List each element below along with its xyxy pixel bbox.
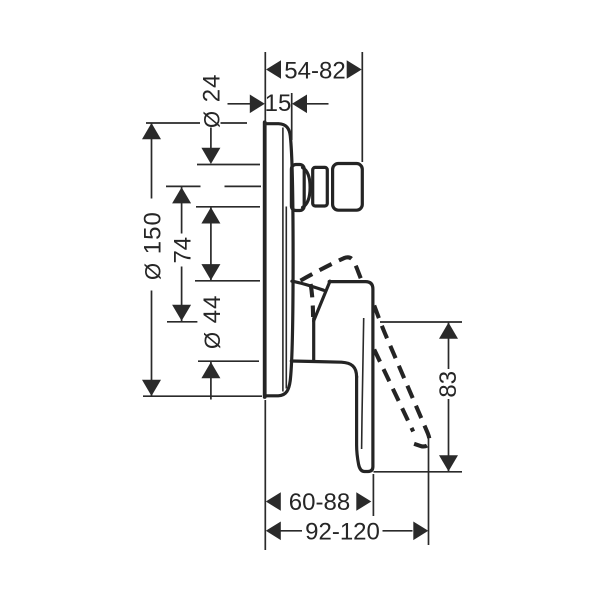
dimension 92-120: [266, 522, 281, 541]
dimension 15: [228, 103, 251, 105]
escutcheon plate back edge: [263, 122, 267, 397]
wall extension line top: [264, 52, 266, 126]
handle hub arc: [292, 281, 324, 290]
svg-text:Ø 44: Ø 44: [199, 295, 226, 350]
extension line dashed lever tip: [428, 438, 430, 545]
svg-text:83: 83: [435, 371, 462, 398]
stop valve cap: [333, 164, 363, 211]
svg-text:54-82: 54-82: [284, 57, 345, 84]
svg-text:60-88: 60-88: [289, 489, 350, 516]
handle hub side lower: [312, 319, 315, 362]
lever underside: [291, 361, 356, 377]
extension line lever tip: [372, 474, 374, 516]
extension line 74 bottom: [167, 321, 197, 323]
dimension 74: [181, 187, 183, 321]
extension line stem bottom: [196, 206, 260, 208]
extension line stem top: [197, 164, 260, 166]
dashed lever left edge near hub: [311, 284, 314, 317]
extension line plate face: [291, 93, 293, 140]
dimension 60-88: [266, 492, 281, 511]
extension line plate bottom: [143, 395, 262, 397]
extension line stem center: [166, 185, 261, 187]
svg-text:74: 74: [169, 237, 196, 264]
dimension Ø150: [151, 123, 153, 396]
svg-text:Ø 150: Ø 150: [139, 211, 166, 280]
stop valve sleeve: [291, 165, 304, 211]
stop valve stem: [313, 167, 328, 206]
svg-text:92-120: 92-120: [305, 519, 380, 546]
wall extension line bottom: [264, 400, 266, 550]
extension line hub top: [195, 280, 260, 282]
dashed lever outer edge: [374, 306, 429, 447]
extension line cap right: [361, 52, 363, 162]
escutcheon plate outline: [265, 124, 293, 396]
extension line 83 top: [380, 321, 462, 323]
dashed lever inner edge: [374, 350, 413, 432]
plate face thin line B: [285, 207, 287, 389]
stop valve dome: [303, 168, 311, 208]
svg-text:Ø 24: Ø 24: [199, 74, 226, 129]
dimension 83: [448, 323, 450, 472]
lever outline: [329, 282, 373, 472]
lever inner contour: [362, 318, 364, 449]
dashed lever upper edge (open position): [301, 257, 362, 281]
plate face thin line A: [282, 128, 284, 392]
svg-text:15: 15: [265, 90, 292, 117]
extension line 83 bottom: [374, 471, 463, 473]
lever wedge slant: [314, 281, 330, 321]
extension line plate top: [146, 122, 247, 124]
dimension 54-82: [266, 60, 281, 79]
extension line hub bottom: [198, 360, 259, 362]
